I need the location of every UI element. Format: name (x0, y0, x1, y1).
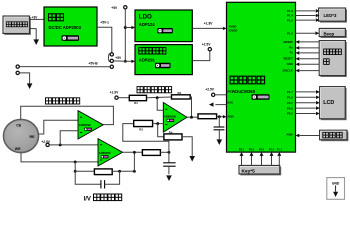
terminal +2.5V left (46, 143, 49, 146)
input marks U3 (165, 108, 167, 110)
arrow into AIN0 (223, 115, 227, 118)
wire R2 to output node (190, 97, 191, 117)
jumper terminal A (110, 53, 113, 56)
junction U2 output (133, 151, 136, 154)
wire U2 output (123, 151, 143, 153)
programming interface box (319, 41, 347, 77)
wire feedback up to output (133, 152, 135, 171)
arrow down AIN capacitor ground (217, 139, 223, 145)
svg-text:GND: GND (332, 181, 340, 185)
wire R5 to AIN0 (217, 116, 224, 118)
wire battery lower branch (30, 29, 36, 40)
svg-text:P0.5: P0.5 (249, 149, 255, 152)
wire junction down to op-amp input (157, 98, 163, 111)
svg-text:LDO: LDO (139, 14, 152, 21)
wire CE loop from op-amp output (21, 106, 114, 124)
wire feedback resistor to node (112, 170, 134, 172)
svg-text:Beep: Beep (324, 31, 335, 36)
wire RE to op-amp input (39, 120, 78, 134)
svg-text:P1.2: P1.2 (287, 31, 293, 35)
terminal +1.9V filter input (115, 96, 118, 99)
resistor R5 output (198, 114, 217, 119)
svg-text:AIN0: AIN0 (227, 115, 234, 119)
svg-text:CE: CE (16, 123, 22, 127)
svg-text:R2: R2 (178, 91, 182, 95)
wire up to U1 noninverting input (60, 131, 78, 145)
svg-text:Tx: Tx (290, 51, 294, 55)
svg-text:P1.1: P1.1 (277, 149, 283, 152)
svg-text:SWDIO: SWDIO (283, 40, 293, 44)
svg-text:+2.5V: +2.5V (202, 42, 212, 46)
wires keys to MCU bottom (241, 152, 243, 165)
svg-text:+1.8V: +1.8V (204, 21, 214, 25)
resistor R4 (164, 134, 182, 140)
junction +5V to reference (124, 60, 127, 63)
label potentiostat circuit (46, 98, 80, 104)
arrow into MCU AVDD (223, 27, 227, 30)
junction R1 R2 (156, 96, 159, 99)
wire WE to I/V converter (21, 153, 98, 162)
arrow down left supply (27, 83, 33, 89)
GND legend box (327, 178, 345, 200)
resistor R3 (134, 120, 153, 126)
arrow down capacitor ground (166, 175, 172, 181)
svg-text:Key*5: Key*5 (242, 169, 256, 175)
svg-text:IOVDD: IOVDD (229, 29, 238, 33)
wire MCU to Beep (296, 32, 316, 34)
svg-text:DC/DC ADP2503: DC/DC ADP2503 (49, 25, 82, 30)
terminal left supply (16, 71, 19, 74)
svg-text:P0.4: P0.4 (259, 149, 265, 152)
svg-text:P0.6: P0.6 (287, 106, 293, 110)
wire +5V rail vertical (124, 9, 126, 61)
Beep box (319, 28, 347, 38)
svg-text:P0.5: P0.5 (287, 112, 293, 116)
wire loop from I/V node up to R3 (123, 124, 169, 153)
resistor series I/V output (142, 150, 160, 156)
terminal left rail end (16, 65, 19, 68)
terminal C bottom rail (110, 65, 113, 68)
wire potentiometer to MCU AIN6 (300, 135, 320, 137)
jumper bracket (108, 53, 111, 62)
svg-text:P1.6: P1.6 (287, 96, 293, 100)
arrow left DAC (209, 102, 214, 106)
svg-text:R3: R3 (139, 127, 143, 131)
wire R1 to junction (147, 96, 172, 99)
reference supply block ADR291 (135, 45, 192, 75)
terminal +2.5V reference (208, 48, 211, 51)
svg-text:+3V: +3V (31, 15, 38, 19)
wire +2.5V node (49, 144, 98, 146)
wire to R1 (118, 97, 129, 99)
svg-text:LCD: LCD (323, 100, 334, 106)
svg-text:R4: R4 (169, 130, 173, 134)
LDO block ADP124 (135, 10, 192, 42)
terminal +5V top (124, 6, 127, 9)
junction feedback to output (133, 170, 136, 173)
capacitor AIN to ground (214, 126, 225, 128)
svg-text:R1: R1 (134, 101, 138, 105)
junction +5V to LDO (124, 26, 127, 29)
op-amp U1 potentiostat (78, 111, 103, 139)
wire AIN node down to capacitor (218, 117, 220, 127)
signal processing block ADuCM360 (227, 2, 296, 152)
svg-text:DAC: DAC (227, 100, 233, 104)
arrow into reference (131, 60, 135, 63)
svg-text:AD8605B: AD8605B (99, 151, 111, 155)
Key*5 box (239, 165, 281, 175)
svg-text:ADR291: ADR291 (139, 57, 156, 62)
svg-text:P1.0: P1.0 (269, 149, 275, 152)
svg-text:+5V: +5V (115, 56, 122, 60)
capacitor loop left (75, 171, 101, 184)
capacitor C feedback (100, 180, 102, 188)
svg-text:VREF: VREF (227, 90, 234, 93)
svg-text:+5V-B: +5V-B (88, 62, 98, 66)
svg-text:AIN6: AIN6 (286, 133, 293, 137)
svg-text:+5V-1: +5V-1 (100, 21, 109, 25)
wire battery to power +3V (30, 18, 44, 20)
wire jumper B to rail (113, 60, 125, 62)
input marks U1 (80, 116, 82, 118)
wire +2.5V to VREF (215, 94, 227, 96)
junction I/V out node (167, 151, 170, 154)
power supply block DC/DC ADP2503 (44, 7, 97, 46)
arrow down R4 ground (189, 156, 195, 162)
svg-text:P0.1: P0.1 (239, 149, 245, 152)
junction feedback right (118, 170, 121, 173)
svg-text:P1.3: P1.3 (287, 9, 293, 13)
wire to reference input (125, 60, 131, 62)
LCD box (320, 87, 347, 121)
svg-text:RE: RE (30, 135, 36, 139)
svg-text:LED*3: LED*3 (324, 13, 337, 18)
svg-text:WE: WE (15, 147, 21, 151)
wire R3 to op-amp lower input (153, 123, 164, 125)
potentiometer box (320, 130, 349, 141)
svg-text:P0.7: P0.7 (287, 101, 293, 105)
junction feedback left (74, 170, 77, 173)
op-amp U3 filter (163, 102, 187, 132)
wire left supply to arrow (19, 73, 29, 84)
junction WE feedback (74, 160, 77, 163)
svg-text:+2.5V: +2.5V (205, 88, 215, 92)
svg-text:AD8605B: AD8605B (164, 114, 176, 118)
wire to LDO input (125, 27, 131, 29)
svg-text:P1.5: P1.5 (287, 18, 293, 22)
capacitor at I/V node to ground (168, 152, 170, 162)
op-amp U2 I/V converter (98, 139, 123, 166)
svg-text:SWCLK: SWCLK (283, 68, 293, 72)
junction AIN node (218, 115, 221, 118)
svg-text:P1.4: P1.4 (287, 14, 293, 18)
svg-text:P1.7: P1.7 (287, 90, 293, 94)
wires programming interface to MCU (300, 41, 320, 43)
resistor R1 (129, 95, 146, 100)
wire series resistor to node (160, 151, 169, 153)
LED*3 box (319, 8, 347, 23)
wire R4 to ground arrow (182, 137, 192, 156)
svg-text:+1.9V: +1.9V (110, 90, 120, 94)
svg-text:GND: GND (287, 62, 293, 66)
battery pack box (gan dian chi zu) (3, 16, 31, 35)
wire U3 output to R5 (187, 116, 198, 118)
wire +5V-B rail (19, 66, 110, 68)
wire down to R4 (158, 124, 164, 137)
input marks U2 (100, 144, 102, 146)
arrow down battery branch (33, 39, 39, 45)
wire LDO out +1.8V (192, 27, 223, 29)
svg-text:ADP124: ADP124 (139, 22, 155, 27)
resistor R feedback I/V (94, 169, 112, 175)
wire reference out to +2.5V terminal (192, 51, 210, 61)
svg-text:+5V: +5V (111, 6, 118, 10)
wire DAC out with left arrow (215, 104, 226, 106)
svg-text:RESET: RESET (283, 57, 293, 61)
wire feedback down (74, 162, 76, 171)
junction U3 output (190, 116, 193, 119)
resistor R2 feedback filter (172, 95, 191, 99)
arrow into LDO (131, 26, 135, 29)
svg-text:+2.5V: +2.5V (41, 140, 51, 144)
junction R3 node (156, 122, 159, 125)
capacitor loop right (105, 171, 120, 184)
junction +2.5V node (59, 143, 62, 146)
jumper terminal B (110, 59, 113, 62)
terminal +2.5V mid (212, 93, 215, 96)
label filter circuit (137, 87, 172, 93)
wire to feedback resistor (75, 170, 94, 172)
svg-text:Rx: Rx (289, 46, 293, 50)
svg-text:I/V: I/V (84, 197, 91, 203)
svg-text:AD8605B: AD8605B (79, 123, 91, 127)
wire power out to +5V jumper (97, 27, 112, 52)
wires MCU to LED*3 (296, 10, 316, 12)
wires MCU to LCD (296, 91, 316, 93)
svg-text:ADuCM360: ADuCM360 (232, 89, 256, 94)
